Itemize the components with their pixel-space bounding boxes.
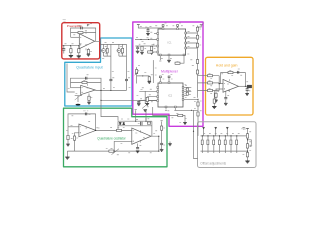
wire feedback top	[71, 28, 96, 41]
offset labels	[203, 127, 251, 154]
wire right column	[197, 26, 199, 98]
wire input from preamp	[67, 64, 75, 93]
svg-text:IC1: IC1	[167, 41, 172, 45]
wire input branch 1	[198, 75, 220, 77]
svg-text:Hold and gain: Hold and gain	[216, 64, 238, 68]
pin label dashes ic1 bottom	[159, 60, 161, 62]
wire input stubs	[204, 129, 228, 136]
resistor R34	[213, 140, 215, 145]
value label	[250, 145, 253, 146]
region box: offset adjustments (gray)	[198, 122, 257, 168]
ground	[69, 56, 73, 58]
resistor R21	[73, 136, 75, 140]
wire noninverting branch U5	[75, 133, 79, 151]
ground	[150, 52, 154, 54]
resistor R37	[230, 140, 232, 145]
node Q junction	[247, 139, 248, 140]
node K junction	[95, 130, 96, 131]
wire ic1 top stubs	[163, 25, 178, 29]
stub labels	[135, 109, 147, 111]
wire feedback loop	[71, 78, 102, 90]
capacitor C4	[125, 79, 128, 80]
wire ic2 bottom stubs	[166, 107, 175, 110]
resistor R26	[208, 75, 213, 77]
wire ic1 right pins	[186, 33, 198, 48]
wire feedback resistor branch	[71, 81, 102, 83]
wire inverting ground branch	[67, 127, 69, 144]
svg-text:Preamplifier: Preamplifier	[67, 24, 82, 28]
ground	[87, 54, 91, 56]
ic2 top T bars	[159, 76, 161, 78]
node P junction	[245, 86, 246, 87]
wire to oscillator	[101, 100, 118, 120]
wire vdd top-right	[198, 25, 202, 27]
capacitor C14	[85, 113, 87, 116]
resistor R10	[141, 45, 143, 47]
capacitor C12	[186, 88, 188, 91]
wire trimmer branch	[137, 67, 150, 83]
svg-text:Multiplexer: Multiplexer	[161, 70, 179, 74]
wire feedback loop	[221, 73, 246, 87]
cap label dash	[83, 110, 88, 112]
wire ic1 cluster to pin	[153, 51, 158, 53]
wire ic2 left branches	[139, 91, 148, 104]
vdd T	[177, 25, 179, 27]
wire noninverting branch	[216, 89, 223, 100]
pin label specks purple	[66, 26, 248, 153]
resistor R22	[67, 135, 69, 139]
resistor R23	[117, 129, 122, 131]
node B0 junction	[110, 90, 111, 91]
resistor R40	[246, 144, 248, 148]
wire output U6	[151, 136, 159, 151]
wire noninverting branch U6	[114, 141, 132, 151]
potentiometer P3	[109, 150, 114, 152]
wire chain tap	[248, 140, 252, 145]
vdd T	[200, 24, 203, 26]
wire vdd top-left	[138, 25, 163, 29]
wire right chain	[247, 129, 249, 161]
IC U4 multiplexer	[158, 83, 183, 107]
wire ic1 left pin rail	[135, 38, 158, 40]
node N junction	[158, 151, 159, 152]
wire top bus	[201, 135, 248, 137]
potentiometer P1	[135, 70, 137, 74]
op-amp U1	[79, 34, 94, 49]
node L junction	[114, 151, 115, 152]
resistor R29	[228, 72, 233, 74]
node I junction	[197, 99, 198, 100]
wire ic1 bottom stubs	[160, 55, 169, 60]
wire output	[239, 85, 252, 87]
wire bottom bus	[201, 150, 248, 152]
op-amp input polarity marks	[80, 37, 225, 141]
ground	[136, 51, 140, 53]
resistor R25	[160, 126, 162, 130]
quad input labels	[68, 43, 130, 98]
net flag Ta	[87, 24, 89, 26]
wire input branch 3	[198, 90, 220, 92]
diode D1	[119, 122, 121, 124]
resistor R38	[236, 140, 238, 145]
vdd T	[162, 25, 164, 27]
multiplexer labels	[136, 23, 204, 119]
resistor R18	[197, 102, 199, 106]
capacitor C17	[160, 143, 163, 144]
ground	[66, 144, 70, 146]
wire summing node	[219, 76, 223, 91]
ground	[143, 110, 147, 112]
resistor R9	[88, 94, 90, 97]
vdd T +15	[246, 127, 249, 129]
input terminal marks	[63, 20, 66, 22]
resistor R3	[78, 46, 80, 49]
wire cell2 branches	[119, 44, 127, 79]
node A2 junction	[63, 45, 64, 46]
designator label specks	[65, 23, 252, 155]
stub label	[161, 120, 163, 122]
node J2 junction	[191, 110, 192, 111]
capacitor C16	[136, 147, 139, 148]
node M junction	[158, 136, 159, 137]
wire to limiter rail	[153, 107, 198, 159]
oscillator labels	[71, 115, 166, 155]
svg-text:Quadrature oscillator: Quadrature oscillator	[97, 137, 126, 141]
IC U3 multiplexer	[158, 29, 186, 55]
diode D2	[123, 122, 125, 124]
capacitor C5	[85, 77, 87, 80]
resistor R6	[122, 48, 124, 53]
resistor R5	[106, 48, 108, 53]
wire output	[95, 41, 101, 44]
wire inter-ic	[152, 60, 154, 83]
wire output U5	[96, 129, 132, 131]
resistor R30	[215, 93, 217, 97]
node F junction	[140, 39, 141, 40]
input flag b	[215, 127, 217, 129]
svg-text:+15: +15	[241, 126, 246, 130]
IC1 pin nubs	[157, 28, 187, 56]
ground stub right of oscillator	[169, 142, 171, 144]
op-amp U2	[81, 85, 96, 94]
node E junction	[147, 27, 148, 28]
node A3 junction	[78, 45, 79, 46]
preamp labels	[65, 26, 93, 52]
op-amp U5	[79, 124, 96, 137]
capacitor C18	[237, 71, 239, 74]
resistor R4	[87, 48, 89, 49]
svg-text:Offset adjustments: Offset adjustments	[200, 162, 226, 166]
node H junction	[142, 75, 143, 76]
wire cap ground branch	[225, 91, 227, 103]
resistor R2	[70, 46, 72, 49]
wire ic1 cluster rail	[135, 45, 158, 47]
capacitor C7	[137, 46, 139, 47]
wire bottom bus	[67, 150, 158, 152]
resistor R16	[148, 77, 150, 81]
resistor R15	[196, 70, 198, 74]
capacitor bank right: C8	[196, 27, 198, 31]
region box: quadrature oscillator (green)	[64, 108, 168, 167]
wire to offset chain	[197, 99, 199, 136]
ground	[146, 103, 150, 105]
capacitor C2	[63, 46, 65, 49]
node C junction	[100, 100, 101, 101]
wire inverting input	[71, 87, 81, 89]
resistor R41	[246, 153, 248, 157]
capacitor C3	[109, 79, 112, 80]
wire output RC	[246, 86, 248, 93]
wire input branch 2	[198, 82, 220, 84]
wire feedback resistor branch	[71, 32, 96, 34]
resistor R11	[151, 45, 153, 47]
ground	[245, 94, 249, 96]
wire input rail	[62, 45, 79, 47]
capacitor C1	[81, 27, 83, 30]
wire inverting input	[71, 36, 80, 38]
wire top rail	[101, 43, 127, 45]
wire column lower	[111, 81, 127, 90]
node R junction	[247, 151, 248, 152]
wire bus2 ticks	[202, 151, 237, 153]
wire integrator feedback loop	[68, 114, 96, 130]
capacitor C11	[137, 101, 140, 102]
resistor R12	[148, 51, 153, 53]
resistor R20	[178, 114, 183, 116]
capacitor C19	[246, 89, 249, 90]
svg-text:IC2: IC2	[168, 94, 173, 98]
wire to multiplexer	[101, 90, 158, 100]
wire ic1 left stub	[154, 33, 158, 35]
ground tab	[183, 123, 187, 125]
wire cell1 branches	[104, 44, 111, 79]
wire inverting input U5	[68, 126, 79, 128]
resistor R7	[82, 81, 87, 83]
wire ic2 top stubs	[160, 76, 169, 83]
node O junction	[219, 83, 220, 84]
capacitor C15	[140, 122, 142, 125]
resistor R36	[224, 140, 226, 145]
wire branch3 ground	[213, 91, 215, 107]
ground	[65, 157, 69, 159]
resistor ladder R32	[201, 140, 203, 145]
resistor R27	[208, 82, 213, 84]
resistor R35	[218, 140, 220, 145]
resistor R33	[207, 140, 209, 145]
svg-text:Quadrature input: Quadrature input	[76, 66, 102, 70]
op-amp U7	[223, 79, 239, 92]
capacitor C20	[224, 97, 227, 98]
ground	[140, 52, 144, 54]
node A junction	[70, 45, 71, 46]
region box: preamplifier (red)	[62, 23, 100, 59]
ground	[160, 150, 164, 152]
region box: hold and gain (orange)	[206, 57, 254, 115]
ground	[77, 56, 81, 58]
ground	[212, 107, 216, 109]
ground	[136, 151, 140, 153]
op-amp U6	[132, 128, 151, 144]
input flag a	[203, 127, 205, 129]
resistor R31	[213, 99, 215, 103]
wire limiter stubs up	[136, 110, 146, 121]
wire ladder branches	[202, 136, 237, 151]
pin label dashes ic2 bottom	[165, 109, 177, 111]
wire bus left ground stub	[66, 151, 68, 157]
capacitor C13	[186, 92, 188, 95]
region box: multiplexer (purple)	[133, 22, 203, 126]
resistor R8	[75, 96, 82, 102]
ground	[87, 102, 91, 104]
ground	[224, 103, 228, 105]
wire limiter rails	[118, 121, 152, 136]
wire U6 ground stub	[137, 144, 139, 148]
resistor R1	[78, 31, 83, 33]
resistor R14	[196, 60, 198, 64]
resistor R24	[147, 122, 150, 124]
resistor R39	[246, 134, 248, 138]
ground	[137, 104, 141, 106]
node G junction	[148, 39, 149, 40]
input flag c	[226, 127, 228, 129]
ground	[146, 34, 150, 36]
vdd T	[137, 24, 140, 26]
ground	[245, 161, 249, 163]
wire right chain	[161, 122, 163, 150]
resistor R13	[180, 55, 184, 63]
wire output rail	[95, 89, 126, 91]
op-amp supply stubs	[86, 32, 230, 143]
transistor Q1	[102, 49, 106, 53]
node B junction	[100, 90, 101, 91]
junction dots on bus	[202, 135, 203, 136]
wire ic2 right pins	[183, 87, 198, 99]
node rail junction	[135, 121, 136, 122]
ground	[214, 100, 218, 102]
hold and gain labels	[209, 69, 251, 97]
capacitor C10	[196, 43, 198, 47]
IC2 pin nubs	[157, 82, 184, 108]
transistor Q2	[117, 49, 121, 53]
resistor R19	[197, 112, 199, 116]
output label	[247, 85, 252, 88]
wire ic2 left pins	[139, 91, 158, 100]
resistor R28	[208, 89, 213, 91]
node J junction	[193, 131, 194, 132]
ground	[148, 82, 152, 84]
capacitor C9	[196, 35, 198, 39]
label speck Ta	[90, 23, 92, 25]
capacitor C6	[147, 28, 149, 30]
resistor R17	[146, 97, 148, 101]
potentiometer P2	[142, 103, 149, 108]
region box: quadrature input (cyan)	[65, 38, 132, 106]
potentiometer wiper	[75, 94, 82, 100]
ground	[76, 104, 81, 106]
